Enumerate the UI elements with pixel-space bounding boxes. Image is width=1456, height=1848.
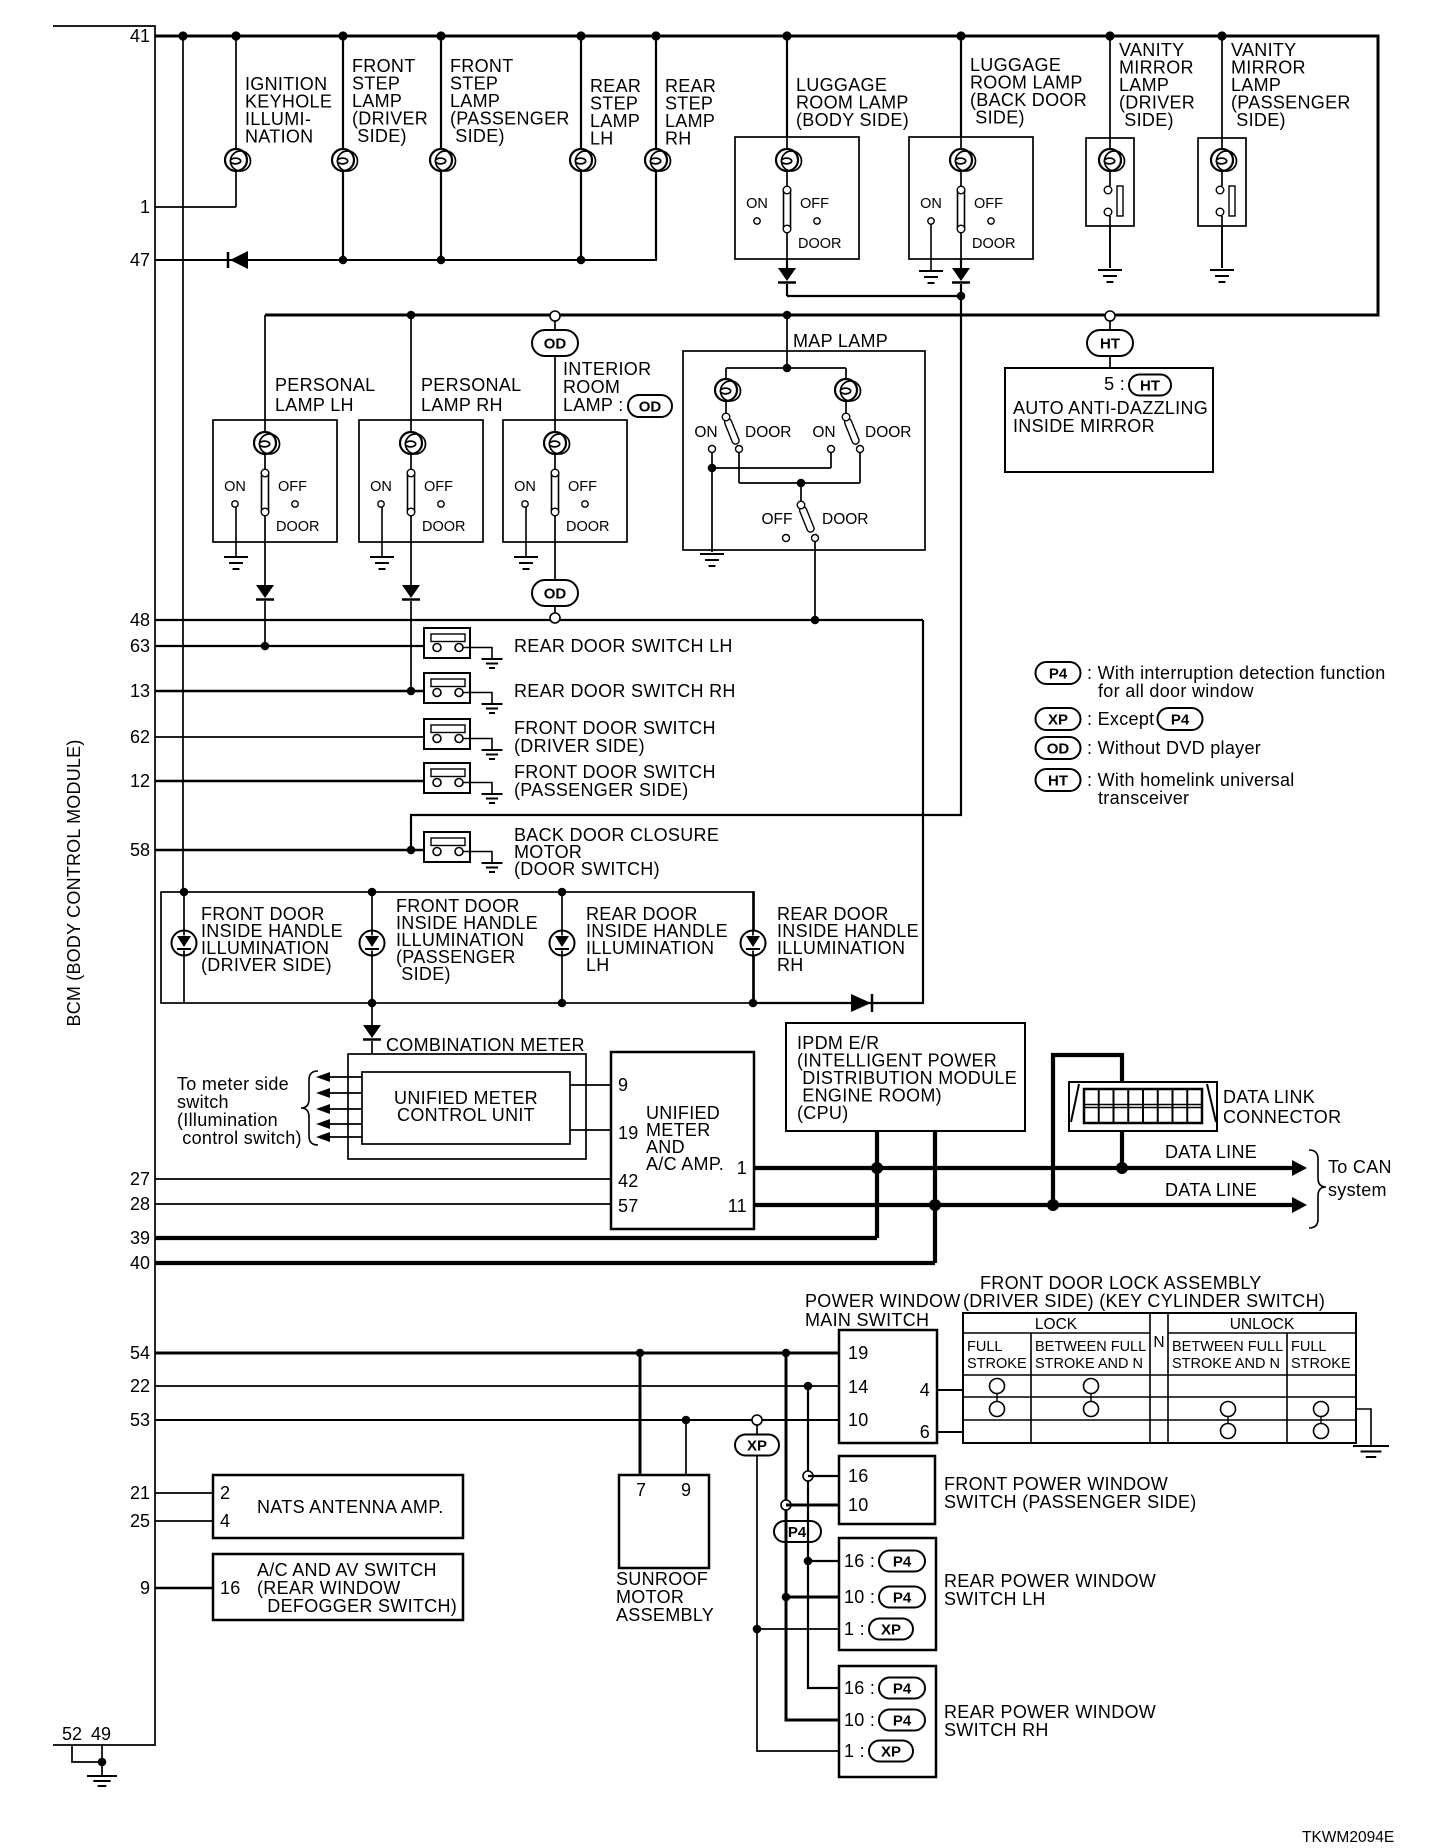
wire: pin 54 to sunroof pin 7 xyxy=(639,1353,642,1475)
svg-text:: Without DVD player: : Without DVD player xyxy=(1087,738,1261,758)
svg-text:XP: XP xyxy=(881,1744,901,1761)
node: dots and taps on second-row bus xyxy=(407,311,792,320)
label: To CAN system xyxy=(1309,1150,1392,1228)
svg-text:REAR DOOR SWITCH LH: REAR DOOR SWITCH LH xyxy=(514,636,733,656)
svg-text:ON: ON xyxy=(224,479,246,495)
svg-text:: With interruption detection: : With interruption detection function xyxy=(1087,663,1386,683)
label: FRONT DOOR LOCK ASSEMBLY (DRIVER SIDE) (KEY CYLINDER SWITCH) xyxy=(963,1273,1325,1311)
wire: BCM pin 62 xyxy=(155,736,433,738)
wire: BCM pin 25 xyxy=(155,1520,213,1522)
lamp: REAR STEP LAMP LH xyxy=(570,36,641,260)
wire: pin 41 power bus with right wrap-around xyxy=(155,36,1378,315)
svg-text:1: 1 xyxy=(140,197,150,217)
svg-text:DEFOGGER SWITCH): DEFOGGER SWITCH) xyxy=(262,1596,457,1616)
svg-text:ON: ON xyxy=(370,479,392,495)
svg-text:SIDE): SIDE) xyxy=(970,108,1025,128)
box: SUNROOF MOTOR ASSEMBLY xyxy=(616,1475,714,1625)
svg-text:P4: P4 xyxy=(788,1524,807,1541)
svg-text:HT: HT xyxy=(1100,336,1120,353)
contacts: key cylinder unlock side xyxy=(1221,1402,1329,1439)
switch: REAR DOOR SWITCH RH xyxy=(424,673,736,703)
svg-text:OFF: OFF xyxy=(568,479,597,495)
svg-text:MAP LAMP: MAP LAMP xyxy=(793,331,888,351)
svg-text:42: 42 xyxy=(618,1171,639,1191)
arrows: to meter side switch xyxy=(316,1072,362,1142)
svg-text:16 :: 16 : xyxy=(844,1551,875,1571)
svg-text:53: 53 xyxy=(130,1410,150,1430)
svg-text:(Illumination: (Illumination xyxy=(177,1110,278,1130)
connector: DATA LINK CONNECTOR xyxy=(1069,1082,1341,1131)
svg-text:STROKE AND N: STROKE AND N xyxy=(1035,1356,1143,1372)
BCM pin 63 label xyxy=(130,636,150,656)
wire: luggage body side to back door side join xyxy=(787,292,965,301)
legend: XP xyxy=(1036,708,1203,730)
wire: BCM pin 21 xyxy=(155,1492,213,1494)
svg-text:P4: P4 xyxy=(893,1590,912,1607)
svg-text:DOOR: DOOR xyxy=(972,236,1016,252)
lamp: FRONT STEP LAMP (PASSENGER SIDE) xyxy=(430,36,570,260)
svg-text:1 :: 1 : xyxy=(844,1619,865,1639)
svg-text:LH: LH xyxy=(586,955,610,975)
svg-text:FRONT DOOR LOCK ASSEMBLY: FRONT DOOR LOCK ASSEMBLY xyxy=(980,1273,1262,1293)
svg-text:ON: ON xyxy=(746,196,768,212)
svg-text:P4: P4 xyxy=(1049,666,1068,683)
svg-text:27: 27 xyxy=(130,1169,150,1189)
wire: BCM pin 53 xyxy=(155,1419,839,1421)
svg-text:(DRIVER SIDE): (DRIVER SIDE) xyxy=(514,736,645,756)
svg-text:control switch): control switch) xyxy=(177,1128,302,1148)
svg-text:OFF: OFF xyxy=(762,511,793,528)
ground: rear door switch RH xyxy=(482,704,503,713)
wire: rail from 41 bus down to inside-handle illumination box xyxy=(182,36,184,892)
svg-text:XP: XP xyxy=(1048,712,1068,729)
node: bus junction dots on 41 bus xyxy=(178,31,1226,40)
lamp: map lamp right bulb xyxy=(835,368,861,413)
svg-text:DATA LINE: DATA LINE xyxy=(1165,1142,1257,1162)
ground: personal lamp RH ON contact xyxy=(370,507,394,569)
diode on pin 47 wire xyxy=(228,251,248,269)
BCM pin 25 label xyxy=(130,1511,150,1531)
svg-text:FRONT DOOR SWITCH: FRONT DOOR SWITCH xyxy=(514,718,716,738)
svg-text:OD: OD xyxy=(1047,741,1070,758)
BCM pin 1 label xyxy=(140,197,150,217)
box: IPDM E/R (CPU) xyxy=(786,1023,1025,1131)
wire: pin 54 branch to window switches pin 10 xyxy=(781,1353,839,1720)
box: REAR POWER WINDOW SWITCH RH xyxy=(839,1666,1156,1777)
BCM pin 54 label xyxy=(130,1343,150,1363)
svg-text:LAMP LH: LAMP LH xyxy=(275,395,354,415)
svg-text:54: 54 xyxy=(130,1343,150,1363)
wire: IPDM to data line 1 / pin 39 xyxy=(871,1131,883,1238)
svg-text:DOOR: DOOR xyxy=(422,519,466,535)
svg-text:58: 58 xyxy=(130,840,150,860)
contacts: key cylinder lock side xyxy=(990,1379,1099,1417)
lamp: FRONT STEP LAMP (DRIVER SIDE) xyxy=(332,36,428,260)
BCM pin 58 label xyxy=(130,840,150,860)
svg-text:for all door window: for all door window xyxy=(1098,681,1254,701)
lamp: map lamp left bulb xyxy=(715,368,741,413)
LED: FRONT DOOR INSIDE HANDLE ILLUMINATION (DRIVER SIDE) xyxy=(172,888,343,1003)
BCM pin 48 label xyxy=(130,610,150,630)
BCM pin 62 label xyxy=(130,727,150,747)
svg-text:STROKE: STROKE xyxy=(967,1356,1027,1372)
svg-text:OD: OD xyxy=(544,336,567,353)
BCM pin 22 label xyxy=(130,1376,150,1396)
svg-text:13: 13 xyxy=(130,681,150,701)
svg-text:7: 7 xyxy=(636,1480,646,1500)
BCM pin 28 label xyxy=(130,1194,150,1214)
box: MAP LAMP xyxy=(683,331,925,550)
svg-text:A/C AND AV SWITCH: A/C AND AV SWITCH xyxy=(257,1560,437,1580)
BCM pin 47 label xyxy=(130,250,150,270)
wire: map lamp feed xyxy=(726,315,846,372)
ground: luggage back door lamp ON contact xyxy=(919,224,943,283)
svg-text:SWITCH LH: SWITCH LH xyxy=(944,1589,1046,1609)
switch: BACK DOOR CLOSURE MOTOR (DOOR SWITCH) xyxy=(424,825,719,879)
svg-text:FRONT POWER WINDOW: FRONT POWER WINDOW xyxy=(944,1474,1168,1494)
BCM (Body Control Module) outline xyxy=(53,26,155,1745)
svg-text:PERSONAL: PERSONAL xyxy=(421,375,521,395)
BCM pin 13 label xyxy=(130,681,150,701)
svg-text:6: 6 xyxy=(920,1422,930,1442)
svg-text:DOOR: DOOR xyxy=(865,424,912,441)
wire: BCM pin 12 xyxy=(155,780,433,783)
BCM pin 9 label xyxy=(140,1578,150,1598)
svg-text:12: 12 xyxy=(130,771,150,791)
wire: DATA LINE 2 to CAN xyxy=(754,1180,1307,1213)
LED: REAR DOOR INSIDE HANDLE ILLUMINATION LH xyxy=(550,888,728,1008)
box: A/C AND AV SWITCH (REAR WINDOW DEFOGGER SWITCH) xyxy=(213,1554,463,1620)
svg-text:16 :: 16 : xyxy=(844,1678,875,1698)
wire: BCM pin 48 xyxy=(155,619,923,621)
svg-text:63: 63 xyxy=(130,636,150,656)
svg-text:P4: P4 xyxy=(893,1554,912,1571)
label: POWER WINDOW MAIN SWITCH xyxy=(805,1291,961,1330)
svg-text:BETWEEN FULL: BETWEEN FULL xyxy=(1035,1339,1146,1355)
svg-text:system: system xyxy=(1328,1180,1387,1200)
svg-text:XP: XP xyxy=(747,1438,767,1455)
svg-text:21: 21 xyxy=(130,1483,150,1503)
svg-text:OD: OD xyxy=(639,399,662,416)
BCM pin 21 label xyxy=(130,1483,150,1503)
svg-text:LAMP :: LAMP : xyxy=(563,395,624,415)
lamp: VANITY MIRROR LAMP (DRIVER SIDE) xyxy=(1086,36,1195,282)
svg-text:1: 1 xyxy=(737,1158,747,1178)
node: pin 22 junction dot xyxy=(804,1382,813,1391)
svg-text:REAR POWER WINDOW: REAR POWER WINDOW xyxy=(944,1702,1156,1722)
svg-text:5 :: 5 : xyxy=(1104,374,1125,394)
svg-text:57: 57 xyxy=(618,1196,639,1216)
svg-text:DOOR: DOOR xyxy=(798,236,842,252)
svg-text:RH: RH xyxy=(777,955,804,975)
svg-text:SIDE): SIDE) xyxy=(1231,110,1286,130)
svg-text:62: 62 xyxy=(130,727,150,747)
svg-text:FRONT DOOR SWITCH: FRONT DOOR SWITCH xyxy=(514,762,716,782)
svg-text:switch: switch xyxy=(177,1092,229,1112)
box: inside handle illumination group xyxy=(161,892,754,1003)
svg-text:48: 48 xyxy=(130,610,150,630)
svg-text:: With homelink universal: : With homelink universal xyxy=(1087,770,1295,790)
svg-text:RH: RH xyxy=(665,129,692,149)
lamp+switch: PERSONAL LAMP LH xyxy=(213,315,375,542)
svg-text:NATION: NATION xyxy=(245,127,313,147)
box: NATS ANTENNA AMP xyxy=(213,1475,463,1538)
label: INTERIOR ROOM LAMP : OD xyxy=(563,359,672,417)
wire: BCM pin 63 xyxy=(155,645,433,647)
svg-text:BCM (BODY CONTROL MODULE): BCM (BODY CONTROL MODULE) xyxy=(64,739,84,1026)
wire: BCM pin 13 xyxy=(155,690,433,693)
svg-text:11: 11 xyxy=(728,1196,747,1216)
switch: FRONT DOOR SWITCH (PASSENGER SIDE) xyxy=(424,762,716,800)
label: drawing number TKWM2094E xyxy=(1302,1829,1394,1846)
wire: IPDM to data line 2 / pin 40 xyxy=(929,1131,941,1263)
wire: BCM pin 47 xyxy=(155,259,657,261)
svg-text:14: 14 xyxy=(848,1377,869,1397)
svg-text:25: 25 xyxy=(130,1511,150,1531)
svg-text:9: 9 xyxy=(681,1480,691,1500)
svg-text:9: 9 xyxy=(140,1578,150,1598)
wire: data link connector drops xyxy=(1047,1055,1128,1211)
wire: BCM pin 22 xyxy=(155,1385,839,1387)
lamp+switch: PERSONAL LAMP RH xyxy=(359,315,521,542)
wire: BCM pin 54 xyxy=(155,1352,839,1355)
svg-text:SIDE): SIDE) xyxy=(1119,110,1174,130)
svg-text:19: 19 xyxy=(848,1343,869,1363)
wire: pin 22 branch to window switches pin 16 xyxy=(803,1386,839,1688)
svg-text:DATA LINE: DATA LINE xyxy=(1165,1180,1257,1200)
svg-text:MOTOR: MOTOR xyxy=(616,1587,684,1607)
BCM pin 12 label xyxy=(130,771,150,791)
svg-text:NATS ANTENNA AMP.: NATS ANTENNA AMP. xyxy=(257,1497,444,1517)
svg-text:OFF: OFF xyxy=(424,479,453,495)
svg-text:16: 16 xyxy=(848,1466,869,1486)
svg-text:PERSONAL: PERSONAL xyxy=(275,375,375,395)
switch: REAR DOOR SWITCH LH xyxy=(424,628,733,658)
svg-text:P4: P4 xyxy=(893,1713,912,1730)
brace and label: To meter side switch (Illumination control switch) xyxy=(177,1071,318,1148)
svg-text:FULL: FULL xyxy=(1291,1339,1326,1355)
svg-text:LH: LH xyxy=(590,129,614,149)
BCM pins 52 49 labels xyxy=(62,1724,111,1744)
svg-text:P4: P4 xyxy=(893,1681,912,1698)
ground: BCM pins 52/49 xyxy=(72,1745,117,1786)
svg-text:47: 47 xyxy=(130,250,150,270)
lamp+switch: LUGGAGE ROOM LAMP (BODY SIDE) xyxy=(735,36,909,259)
wire: BCM pin 9 xyxy=(155,1587,213,1590)
svg-text:To meter side: To meter side xyxy=(177,1074,289,1094)
symbol: P4 oval across branches xyxy=(774,1521,821,1542)
diode below luggage room lamp (back door side) xyxy=(952,259,970,283)
svg-text:(DRIVER SIDE): (DRIVER SIDE) xyxy=(201,955,332,975)
diode from handle box to combination meter xyxy=(363,1003,381,1072)
svg-text:22: 22 xyxy=(130,1376,150,1396)
svg-text:41: 41 xyxy=(130,26,150,46)
switch: map lamp right ON/DOOR xyxy=(812,413,911,452)
wire: interior room lamp to pin 48 via OD xyxy=(532,542,578,623)
wire: BCM pin 28 xyxy=(155,1203,611,1205)
legend: P4 xyxy=(1036,662,1386,701)
svg-text:SIDE): SIDE) xyxy=(352,126,407,146)
svg-text:To CAN: To CAN xyxy=(1328,1157,1392,1177)
wire: map lamp switch to pin 48 wire xyxy=(811,542,820,624)
diode below personal lamp RH xyxy=(402,542,420,695)
box: FRONT POWER WINDOW SWITCH (PASSENGER SIDE) xyxy=(839,1456,1197,1524)
svg-text:DOOR: DOOR xyxy=(276,519,320,535)
box: REAR POWER WINDOW SWITCH LH xyxy=(839,1538,1156,1650)
svg-text:(DOOR SWITCH): (DOOR SWITCH) xyxy=(514,859,660,879)
svg-text:DOOR: DOOR xyxy=(745,424,792,441)
svg-text:DOOR: DOOR xyxy=(822,511,869,528)
LED: FRONT DOOR INSIDE HANDLE ILLUMINATION (PASSENGER SIDE) xyxy=(360,888,538,1008)
svg-text:transceiver: transceiver xyxy=(1098,788,1189,808)
wire: BCM pin 1 xyxy=(155,206,236,208)
svg-text:SIDE): SIDE) xyxy=(396,964,451,984)
svg-text:49: 49 xyxy=(91,1724,111,1744)
svg-text:10: 10 xyxy=(848,1495,869,1515)
switch: FRONT DOOR SWITCH (DRIVER SIDE) xyxy=(424,718,716,756)
svg-text:ON: ON xyxy=(514,479,536,495)
svg-text:SWITCH (PASSENGER SIDE): SWITCH (PASSENGER SIDE) xyxy=(944,1492,1197,1512)
svg-text:19: 19 xyxy=(618,1123,639,1143)
wire: BCM pin 39 xyxy=(155,1236,877,1240)
svg-text:P4: P4 xyxy=(1171,712,1190,729)
wire: main switch pin 6 to key cylinder table xyxy=(937,1431,963,1433)
BCM pin 40 label xyxy=(130,1253,150,1273)
ground: personal lamp LH ON contact xyxy=(224,507,248,569)
wire: main switch pin 4 to key cylinder table xyxy=(937,1389,963,1391)
wire: BCM pin 58 xyxy=(155,849,433,852)
wire: map lamp DOOR contacts join xyxy=(739,453,860,487)
svg-text:N: N xyxy=(1153,1334,1164,1351)
svg-text:COMBINATION METER: COMBINATION METER xyxy=(386,1035,585,1055)
ground: key cylinder switch xyxy=(1353,1409,1389,1457)
svg-text:MAIN SWITCH: MAIN SWITCH xyxy=(805,1310,929,1330)
node: pin 53 junction dot and XP tap xyxy=(682,1415,762,1425)
svg-text:ROOM: ROOM xyxy=(563,377,620,397)
lamp+switch: LUGGAGE ROOM LAMP (BACK DOOR SIDE) xyxy=(909,36,1087,259)
wire: pin 53 to sunroof pin 9 xyxy=(685,1420,687,1475)
svg-text:HT: HT xyxy=(1140,378,1160,395)
svg-text:STROKE AND N: STROKE AND N xyxy=(1172,1356,1280,1372)
ground: rear door switch LH xyxy=(482,659,503,668)
BCM pin 39 label xyxy=(130,1228,150,1248)
svg-text:16: 16 xyxy=(220,1578,241,1598)
svg-text:CONTROL UNIT: CONTROL UNIT xyxy=(397,1105,535,1125)
svg-text:UNLOCK: UNLOCK xyxy=(1230,1316,1295,1333)
svg-text:OFF: OFF xyxy=(974,196,1003,212)
node: junction dots on pin 47 wire xyxy=(339,256,586,265)
svg-text:40: 40 xyxy=(130,1253,150,1273)
svg-text:FULL: FULL xyxy=(967,1339,1002,1355)
svg-text:DOOR: DOOR xyxy=(566,519,610,535)
wire: pin 53 XP branch down to rear switches pin 1 xyxy=(735,1425,839,1751)
wire: BCM pin 27 xyxy=(155,1178,611,1180)
svg-text:4: 4 xyxy=(920,1380,930,1400)
BCM pin 41 label xyxy=(130,26,150,46)
diode below personal lamp LH xyxy=(256,542,274,650)
svg-text:10 :: 10 : xyxy=(844,1587,875,1607)
wire: control unit to unified meter amp pins 9/19 xyxy=(570,1085,611,1130)
BCM pin 27 label xyxy=(130,1169,150,1189)
svg-text:OFF: OFF xyxy=(278,479,307,495)
wire: pin 48 wrap to handle illumination box with diode xyxy=(754,620,923,1003)
ground: front door switch passenger xyxy=(482,794,503,803)
box: power window main switch xyxy=(839,1330,937,1443)
table: key cylinder switch xyxy=(963,1313,1356,1443)
svg-text:(PASSENGER SIDE): (PASSENGER SIDE) xyxy=(514,780,689,800)
svg-text:52: 52 xyxy=(62,1724,82,1744)
svg-text:REAR POWER WINDOW: REAR POWER WINDOW xyxy=(944,1571,1156,1591)
svg-text:AUTO ANTI-DAZZLING: AUTO ANTI-DAZZLING xyxy=(1013,398,1208,418)
wire: front power window switch pin lines xyxy=(786,1476,839,1505)
svg-text:39: 39 xyxy=(130,1228,150,1248)
svg-text:SWITCH RH: SWITCH RH xyxy=(944,1720,1049,1740)
svg-text:1 :: 1 : xyxy=(844,1741,865,1761)
diode on handle box to pin 48 wire xyxy=(851,994,872,1012)
svg-text:28: 28 xyxy=(130,1194,150,1214)
svg-text:2: 2 xyxy=(220,1483,230,1503)
svg-text:POWER WINDOW: POWER WINDOW xyxy=(805,1291,961,1311)
svg-text:10 :: 10 : xyxy=(844,1710,875,1730)
box: AUTO ANTI-DAZZLING INSIDE MIRROR xyxy=(1005,368,1213,472)
svg-text:TKWM2094E: TKWM2094E xyxy=(1302,1829,1394,1846)
wire: map lamp ON contacts to ground xyxy=(700,453,831,566)
wire: luggage lamps down to pin 58 branch xyxy=(407,284,961,854)
svg-text:INSIDE MIRROR: INSIDE MIRROR xyxy=(1013,416,1155,436)
lamp: IGNITION KEYHOLE ILLUMINATION xyxy=(225,36,332,207)
ground: front door switch driver xyxy=(482,750,503,759)
svg-text:SUNROOF: SUNROOF xyxy=(616,1569,708,1589)
svg-text:OD: OD xyxy=(544,586,567,603)
lamp: VANITY MIRROR LAMP (PASSENGER SIDE) xyxy=(1198,36,1351,282)
svg-text:10: 10 xyxy=(848,1410,869,1430)
svg-text:REAR DOOR SWITCH RH: REAR DOOR SWITCH RH xyxy=(514,681,736,701)
svg-text:LAMP RH: LAMP RH xyxy=(421,395,503,415)
wire: BCM pin 40 xyxy=(155,1261,935,1265)
svg-text:DATA LINK: DATA LINK xyxy=(1223,1087,1315,1107)
diode below luggage room lamp (body side) xyxy=(778,259,796,296)
BCM pin 53 label xyxy=(130,1410,150,1430)
legend: OD xyxy=(1036,737,1262,759)
svg-text:(CPU): (CPU) xyxy=(797,1103,849,1123)
svg-text:(DRIVER SIDE) (KEY CYLINDER SW: (DRIVER SIDE) (KEY CYLINDER SWITCH) xyxy=(963,1291,1325,1311)
lamp+switch: INTERIOR ROOM LAMP xyxy=(503,311,627,542)
svg-text:OFF: OFF xyxy=(800,196,829,212)
svg-text:ON: ON xyxy=(920,196,942,212)
legend: HT xyxy=(1036,769,1295,808)
svg-text:A/C AMP.: A/C AMP. xyxy=(646,1154,724,1174)
svg-text:STROKE: STROKE xyxy=(1291,1356,1351,1372)
switch: map lamp left ON/DOOR xyxy=(694,413,791,452)
svg-text:4: 4 xyxy=(220,1511,230,1531)
svg-text:(REAR WINDOW: (REAR WINDOW xyxy=(257,1578,401,1598)
ground: back door closure motor switch xyxy=(482,863,503,872)
svg-text:HT: HT xyxy=(1048,773,1068,790)
svg-text:(BODY SIDE): (BODY SIDE) xyxy=(796,110,909,130)
svg-text:ON: ON xyxy=(812,424,835,441)
svg-text:ON: ON xyxy=(694,424,717,441)
ground: interior room lamp ON contact xyxy=(514,507,538,569)
LED: REAR DOOR INSIDE HANDLE ILLUMINATION RH xyxy=(741,892,919,1007)
box: UNIFIED METER AND A/C AMP xyxy=(611,1052,754,1229)
box: COMBINATION METER xyxy=(348,1035,586,1159)
node: pin 54 junction dots xyxy=(636,1349,790,1357)
svg-text:CONNECTOR: CONNECTOR xyxy=(1223,1107,1341,1127)
wire+symbol: HT tap for auto anti-dazzling inside mirror xyxy=(1087,311,1133,368)
svg-text:INTERIOR: INTERIOR xyxy=(563,359,651,379)
svg-text:BETWEEN FULL: BETWEEN FULL xyxy=(1172,1339,1283,1355)
svg-text:XP: XP xyxy=(881,1622,901,1639)
